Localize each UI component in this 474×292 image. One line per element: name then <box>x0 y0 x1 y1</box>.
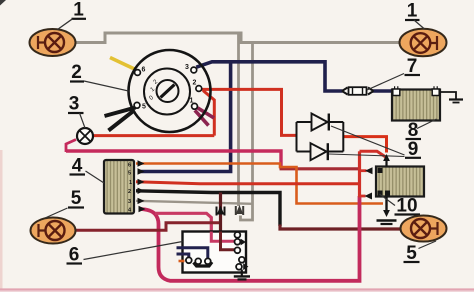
svg-text:1: 1 <box>407 1 418 22</box>
svg-text:6: 6 <box>142 67 146 74</box>
svg-text:8: 8 <box>408 120 419 141</box>
wire magenta branch into switch block 6 <box>155 213 211 232</box>
battery ground <box>440 92 464 103</box>
svg-text:5: 5 <box>128 171 131 177</box>
label 5 (left) <box>45 188 84 218</box>
box 6 ground <box>234 270 250 280</box>
wire red from box 4 pin 3 to regulator bus <box>136 182 360 184</box>
svg-text:3: 3 <box>128 199 131 205</box>
tail lamp 5 (right) <box>401 216 447 242</box>
regulator top pin with connector arrow <box>383 154 390 167</box>
wire navy: switch terminal 3 to fuse <box>196 62 342 91</box>
svg-text:6: 6 <box>69 245 80 266</box>
switch terminal 1 <box>192 103 198 109</box>
headlamp 1 (right) <box>400 29 447 57</box>
wire navy: fuse to battery <box>373 89 393 93</box>
label 7 <box>367 56 420 90</box>
headlamp 1 (left) <box>30 29 76 56</box>
wire red from switch terminal 2 to diode block <box>202 89 297 135</box>
svg-text:5: 5 <box>142 104 146 111</box>
wire black from box 4 pin 4 <box>136 191 280 226</box>
svg-text:7: 7 <box>407 56 418 77</box>
svg-text:3: 3 <box>185 64 189 71</box>
wire red branch from terminal 2 down to pilot lamp 3 <box>203 91 214 136</box>
svg-text:2: 2 <box>193 80 197 87</box>
box 6 bottom-right wedge <box>243 263 248 270</box>
switch terminal 2 <box>196 86 202 92</box>
wire maroon from tail lamp left <box>76 223 221 231</box>
box 6 right contact trio <box>235 232 241 253</box>
switch block 6 (body) <box>183 232 247 273</box>
wire red bus right vertical <box>358 151 361 196</box>
label 1 (left headlamp) <box>58 0 87 30</box>
box 6 navy internal lead 1 <box>177 248 208 259</box>
corner smudge <box>0 0 6 6</box>
label 2 (switch) <box>70 62 129 91</box>
pilot lamp 3 <box>77 128 93 144</box>
wire yellow from switch terminal 6 <box>110 58 136 70</box>
label 4 <box>70 156 105 184</box>
magneto generator box 4 <box>104 160 134 214</box>
scan edge tint left <box>0 150 3 292</box>
wire maroon through connector into switch block 6 <box>219 193 222 233</box>
wire grey: headlamp left to headlamp right (top run) <box>76 33 402 43</box>
wire red lead into regulator lower connector <box>358 195 366 198</box>
wire orange from box 4 pin 1 <box>136 164 383 204</box>
regulator left connector arrows <box>365 167 373 199</box>
svg-text:2: 2 <box>128 189 131 195</box>
svg-text:1: 1 <box>73 0 84 21</box>
wire grey vertical B (to connector above switch block 6) <box>241 43 253 221</box>
svg-text:1: 1 <box>190 98 194 105</box>
connector (left) above switch block 6 <box>217 206 225 216</box>
box 6 contact bar <box>194 262 213 266</box>
box 6 maroon internal lead <box>221 232 235 250</box>
box 6 contact circles bottom row <box>186 257 211 264</box>
wire magenta stubs from switch terminal 1 <box>195 108 214 126</box>
box 6 navy internal lead 2 <box>177 254 189 258</box>
wire magenta riser at pilot lamp 3 <box>66 140 76 153</box>
fuse 7 <box>342 87 374 95</box>
wire red lead into regulator upper connector <box>358 169 367 172</box>
label 10 <box>380 194 421 217</box>
black stub wires from terminal 5 <box>105 108 136 131</box>
switch terminal 6 <box>135 70 141 76</box>
svg-text:4: 4 <box>72 156 83 177</box>
box 6 right wedge contact <box>241 239 246 246</box>
label 1 (right headlamp) <box>405 1 425 30</box>
box 6 crimson internal lead <box>211 232 234 242</box>
wire dark red to regulator connector <box>280 167 360 170</box>
wire grey from magneto box 4 pin 5 <box>136 201 252 204</box>
tail lamp 5 (left) <box>31 218 76 244</box>
svg-text:1: 1 <box>129 180 132 186</box>
svg-text:5: 5 <box>71 188 82 209</box>
wire magenta main horizontal run <box>66 151 281 169</box>
label 3 <box>68 94 85 129</box>
label 5 (right) <box>404 241 437 264</box>
regulator ground <box>377 197 397 225</box>
label 6 <box>67 242 183 266</box>
box 6 bottom-right contacts <box>236 257 245 270</box>
box 4 pin arrows <box>138 160 146 212</box>
battery 8 <box>392 86 440 120</box>
box 6 orange tick <box>179 260 185 263</box>
wire red top tap to junction above regulator <box>360 151 387 157</box>
connector (right) above switch block 6 <box>236 205 243 215</box>
wire red from diode block to regulator junction <box>343 137 386 153</box>
switch terminal 5 <box>134 102 140 108</box>
wire grey vertical A (to connector above switch block 6) <box>237 33 240 206</box>
svg-text:2: 2 <box>71 62 82 83</box>
svg-text:6: 6 <box>128 163 131 169</box>
svg-text:5: 5 <box>406 243 417 264</box>
svg-text:3: 3 <box>69 94 80 115</box>
label 8 <box>406 119 437 141</box>
label 9 <box>329 126 421 160</box>
diode D1 <box>312 114 329 131</box>
regulator 10 <box>376 167 424 197</box>
svg-text:10: 10 <box>396 196 417 217</box>
diode D2 <box>311 143 328 160</box>
wire red from pilot lamp 3 <box>93 134 215 137</box>
wire maroon to tail lamp right <box>280 225 401 230</box>
switch terminal 3 <box>191 67 197 73</box>
bottom pink edge band <box>0 290 474 292</box>
ignition light switch 2 (body) <box>129 50 211 132</box>
wire navy branch down to box 4 pin 2 <box>140 62 231 172</box>
diode block 9 (rectifier) <box>297 122 344 152</box>
wire crimson loop: box 4 pin 6 down to bottom rail and up right bus <box>140 196 360 281</box>
